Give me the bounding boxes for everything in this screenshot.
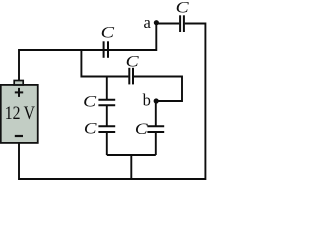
capacitor C3 plates (on middle rail) (128, 68, 130, 85)
svg-text:C: C (83, 93, 97, 110)
battery terminal tab (14, 81, 23, 85)
wire center tap from inner bottom rail to bottom rail (130, 155, 132, 179)
battery plus sign (15, 88, 23, 97)
wire node b down to capacitor C6 top plate (155, 101, 157, 127)
capacitor C1 plates (top right) (179, 15, 181, 32)
svg-text:C: C (135, 121, 149, 138)
wire capacitor C1 right plate to right edge down to bottom rail to battery negative (19, 24, 205, 180)
capacitor C4 plates (left column upper) (98, 99, 115, 101)
node a junction dot (154, 20, 159, 25)
capacitor C2 plates (on top rail) (103, 41, 105, 58)
wire capacitor C3 right plate to hook down to node b (134, 77, 182, 102)
wire capacitor C5 bottom plate down to inner bottom rail (106, 132, 108, 155)
svg-text:C: C (84, 121, 97, 138)
wire between capacitor C4 and capacitor C5 (106, 105, 108, 127)
svg-text:C: C (176, 0, 190, 17)
wire node a to capacitor C1 left plate (156, 23, 179, 25)
svg-text:12 V: 12 V (5, 103, 36, 123)
svg-text:b: b (143, 91, 151, 110)
svg-text:C: C (101, 25, 115, 42)
capacitor C6 plates (right column) (147, 125, 164, 127)
capacitor C5 plates (left column lower) (98, 125, 115, 127)
node b junction dot (154, 98, 159, 103)
wire capacitor C6 bottom plate down to inner bottom rail (155, 132, 157, 155)
battery minus sign (15, 135, 23, 137)
wire branch riser from top rail down to middle rail (81, 50, 128, 77)
wire inner bottom rail (107, 154, 156, 156)
battery 12 V body (1, 85, 38, 143)
svg-text:C: C (126, 54, 140, 71)
wire battery positive terminal to top rail to node a riser (19, 24, 156, 82)
wire middle rail junction down to capacitor C4 top plate (106, 77, 108, 101)
svg-text:a: a (144, 13, 152, 32)
